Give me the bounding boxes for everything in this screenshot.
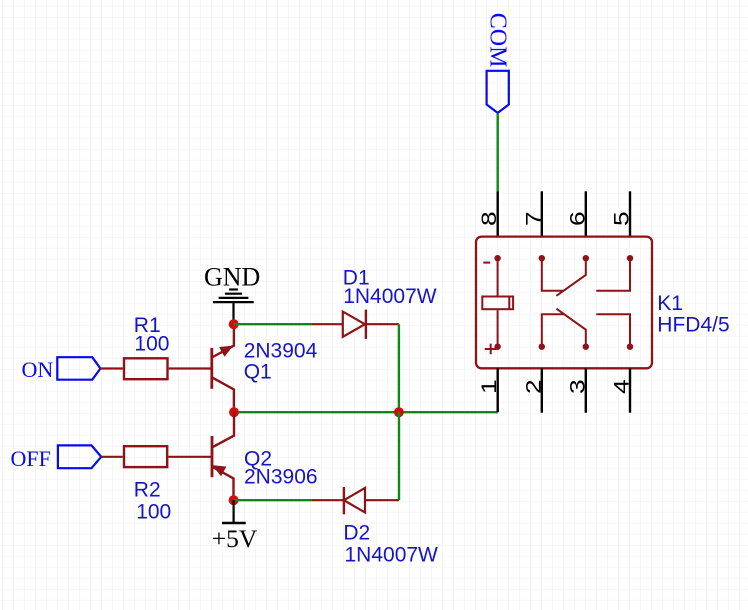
svg-text:R2: R2	[134, 479, 161, 502]
transistor Q1 base bar	[210, 348, 213, 389]
relay K1 pin 2	[541, 368, 543, 412]
relay coil box divider	[508, 297, 510, 310]
svg-text:7: 7	[522, 211, 546, 226]
junction node B	[394, 407, 404, 417]
wire OFF to R2	[101, 456, 123, 458]
relay coil plus mark	[485, 344, 497, 355]
relay K1 pin 4	[629, 368, 631, 412]
relay K1 pin 5	[629, 191, 631, 236]
transistor Q2 collector	[212, 412, 234, 447]
ground symbol	[213, 290, 254, 325]
svg-text:GND: GND	[204, 263, 260, 292]
port flag OFF	[58, 445, 101, 468]
transistor Q1 emitter	[212, 324, 234, 357]
port flag ON	[57, 357, 100, 380]
svg-text:ON: ON	[22, 357, 54, 382]
svg-text:HFD4/5: HFD4/5	[657, 313, 729, 336]
diode D1 cathode bar	[365, 310, 367, 339]
svg-text:1N4007W: 1N4007W	[345, 544, 439, 567]
resistor R1	[124, 358, 168, 379]
transistor Q2 emitter	[212, 467, 234, 501]
relay coil top lead	[497, 258, 499, 295]
relay contact armature (pin 3 bottom)	[556, 309, 585, 347]
diode D1 cathode pin	[366, 323, 399, 325]
svg-text:100: 100	[136, 501, 171, 524]
svg-text:1N4007W: 1N4007W	[343, 285, 437, 308]
svg-text:2N3906: 2N3906	[244, 465, 318, 488]
diode D1 triangle	[343, 312, 365, 337]
junction node C (Q1/Q2 collectors)	[229, 407, 239, 417]
power +5V bar	[222, 522, 246, 525]
transistor Q1 collector	[212, 377, 234, 412]
relay contact stationary (pin 4)	[596, 314, 630, 346]
relay contact fixed (pin 7)	[542, 258, 564, 291]
transistor Q2 base bar	[211, 436, 214, 477]
svg-text:OFF: OFF	[11, 446, 51, 471]
transistor Q1 emitter arrow	[220, 346, 232, 356]
power +5V stem	[233, 500, 235, 523]
diode D2 cathode bar	[343, 487, 345, 514]
svg-text:1: 1	[478, 379, 502, 394]
svg-text:8: 8	[478, 211, 502, 226]
wire middle net	[234, 411, 498, 413]
diode D2 cathode pin	[312, 499, 344, 501]
svg-text:6: 6	[566, 211, 590, 226]
junction node A (GND / Q1 / D1)	[229, 319, 239, 329]
relay coil bottom lead	[497, 310, 499, 347]
diode D1 anode pin	[311, 323, 342, 325]
svg-text:K1: K1	[657, 292, 683, 315]
wire D1 down to node B	[398, 324, 400, 412]
diode D2 anode pin	[365, 499, 399, 501]
resistor R2	[124, 446, 167, 467]
relay K1 pin 6	[585, 191, 587, 236]
wire node D to D2	[234, 499, 312, 501]
svg-text:2: 2	[522, 379, 546, 394]
wire node A to D1	[234, 323, 312, 325]
svg-text:+5V: +5V	[212, 524, 258, 553]
diode D2 triangle	[344, 488, 365, 513]
svg-text:5: 5	[610, 211, 634, 226]
relay contact fixed (pin 2)	[542, 314, 565, 346]
transistor Q2 emitter arrow	[213, 466, 225, 476]
junction node D (Q2 / +5V / D2)	[229, 495, 239, 505]
port flag COM	[487, 71, 509, 113]
wire COM to pin 8	[497, 113, 499, 192]
svg-text:D2: D2	[343, 521, 370, 544]
svg-text:4: 4	[610, 379, 634, 394]
relay contact armature (pin 6 top)	[556, 258, 585, 296]
svg-text:100: 100	[134, 333, 169, 356]
relay K1 body	[476, 237, 652, 369]
relay K1 pin 1	[497, 368, 499, 412]
svg-text:3: 3	[566, 379, 590, 394]
svg-text:Q1: Q1	[244, 360, 272, 383]
relay K1 pin 3	[585, 368, 587, 412]
relay contact stationary (pin 5)	[596, 258, 630, 291]
wire R1 to Q1 base	[169, 367, 212, 369]
relay coil box	[482, 297, 513, 310]
wire D2 up to node B	[398, 412, 400, 500]
relay K1 pin 8	[497, 192, 499, 237]
relay K1 pin 7	[541, 191, 543, 236]
svg-text:2N3904: 2N3904	[244, 339, 318, 362]
wire ON to R1	[100, 367, 122, 369]
wire R2 to Q2 base	[168, 456, 212, 458]
svg-text:COM: COM	[485, 13, 511, 68]
relay coil minus mark	[483, 262, 490, 264]
relay internal pin dots	[494, 255, 633, 350]
